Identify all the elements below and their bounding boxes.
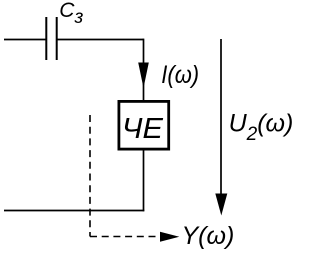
wire block to bottom rail (143, 149, 145, 211)
arrowhead Y(ω) (160, 232, 179, 242)
wire capacitor to corner (57, 39, 144, 41)
svg-text:ЧЕ: ЧЕ (122, 113, 164, 145)
dashed wire vertical (89, 115, 91, 237)
svg-text:U2(ω): U2(ω) (229, 110, 294, 146)
arrowhead I(ω) (138, 63, 149, 89)
wire input left (4, 39, 46, 41)
capacitor Cз (46, 17, 56, 60)
block ЧЕ (119, 101, 169, 149)
svg-text:I(ω): I(ω) (161, 61, 199, 89)
svg-text:Y(ω): Y(ω) (182, 222, 235, 250)
svg-text:Cз: Cз (59, 0, 83, 28)
wire corner down to block (143, 39, 145, 100)
dashed wire horizontal (90, 236, 158, 238)
wire bottom rail (4, 210, 144, 212)
arrow U2(ω) (215, 39, 227, 216)
